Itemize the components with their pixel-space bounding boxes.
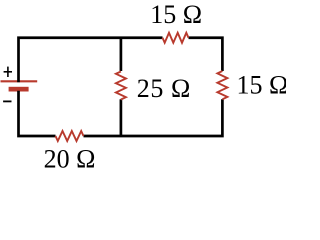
svg-text:15 Ω: 15 Ω [237,71,287,100]
wire: middle branch lower segment [120,99,123,136]
resistor 20 ohm bottom [56,131,84,141]
wire: left branch below battery, bottom wire to R-bottom [19,91,56,136]
resistor 15 ohm right [217,71,227,99]
wire: middle branch upper segment [120,38,123,71]
resistor 15 ohm top [163,33,189,43]
wire: left branch top-left corner and top wire to R-top [19,38,163,82]
svg-text:25 Ω: 25 Ω [137,74,191,103]
battery minus sign [3,100,11,102]
battery V1 short negative plate [9,87,29,92]
wire: bottom wire from 20-ohm to bottom-right corner, up right branch to R-right [84,99,223,136]
battery plus sign [4,67,12,77]
resistor 25 ohm middle [116,72,126,100]
svg-text:15 Ω: 15 Ω [150,0,202,29]
battery V1 long positive plate [1,80,38,82]
svg-text:20 Ω: 20 Ω [44,145,96,174]
wire: top wire from R-top to top-right corner, down to R-right [189,38,223,71]
